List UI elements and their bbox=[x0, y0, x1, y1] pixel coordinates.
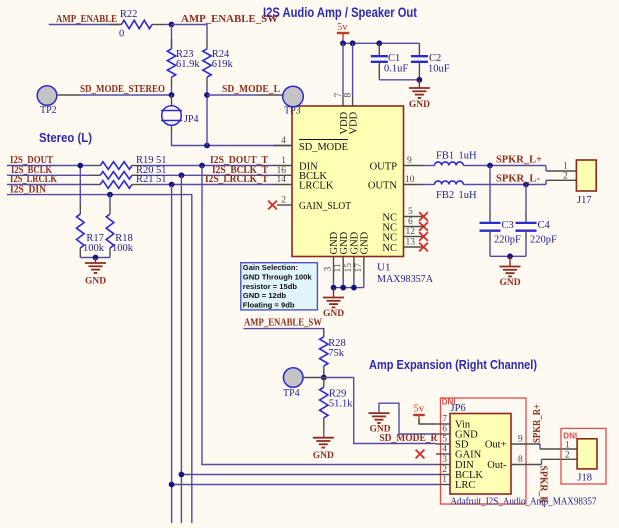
junction SD_MODE_L at R24 bbox=[204, 92, 210, 98]
svg-text:resistor = 15db: resistor = 15db bbox=[243, 282, 298, 291]
svg-text:GND: GND bbox=[313, 451, 334, 461]
svg-text:4: 4 bbox=[442, 445, 447, 455]
resistor R22 bbox=[110, 24, 121, 26]
svg-text:1: 1 bbox=[563, 162, 568, 172]
svg-text:51.1k: 51.1k bbox=[329, 399, 353, 410]
svg-text:AMP_ENABLE_SW: AMP_ENABLE_SW bbox=[244, 317, 322, 329]
svg-text:220pF: 220pF bbox=[494, 235, 521, 246]
svg-text:9: 9 bbox=[518, 435, 523, 445]
svg-text:C2: C2 bbox=[429, 53, 441, 64]
connector J17 bbox=[576, 160, 596, 191]
resistor R20 bbox=[91, 174, 101, 176]
resistor R29 bbox=[323, 378, 325, 388]
ferrite bead FB1 bbox=[423, 165, 435, 167]
svg-text:J17: J17 bbox=[577, 195, 592, 206]
pin 8 Out- JP6 bbox=[511, 464, 542, 466]
ground GND below R29 bbox=[313, 437, 334, 439]
pin 2 BCLK JP6 bbox=[436, 474, 450, 476]
wire TP4 node to SD_MODE_R bbox=[324, 378, 436, 444]
svg-text:6: 6 bbox=[442, 425, 447, 435]
svg-text:Out-: Out- bbox=[487, 460, 507, 471]
ground GND at JP6 bbox=[369, 412, 390, 414]
svg-text:MAX98357A: MAX98357A bbox=[377, 273, 433, 285]
svg-text:75k: 75k bbox=[328, 348, 345, 359]
wire R17 R18 to GND bbox=[80, 257, 110, 259]
svg-text:FB2: FB2 bbox=[436, 190, 454, 201]
wire SD_MODE_L to TP3 bbox=[207, 94, 257, 96]
svg-text:100k: 100k bbox=[83, 243, 105, 254]
svg-text:AMP_ENABLE_SW: AMP_ENABLE_SW bbox=[181, 13, 278, 25]
wire AMP_ENABLE_SW to R24 column bbox=[172, 25, 208, 39]
svg-text:3: 3 bbox=[324, 267, 334, 272]
resistor R24 bbox=[206, 39, 208, 49]
capacitor C2 bbox=[418, 43, 420, 56]
wire jog Out- to J18 pin 2 bbox=[541, 459, 543, 464]
svg-text:GND: GND bbox=[323, 309, 344, 319]
wire 5v rail horizontal bbox=[343, 42, 419, 44]
svg-text:17: 17 bbox=[354, 263, 364, 273]
svg-text:GND: GND bbox=[85, 277, 106, 287]
wire AMP_ENABLE bbox=[49, 24, 122, 26]
svg-text:14: 14 bbox=[277, 175, 287, 185]
svg-text:JP4: JP4 bbox=[184, 114, 198, 125]
svg-text:R22: R22 bbox=[120, 9, 138, 20]
svg-text:GND Through 100k: GND Through 100k bbox=[243, 272, 313, 281]
svg-text:5: 5 bbox=[408, 207, 413, 217]
svg-text:11: 11 bbox=[333, 263, 343, 272]
wire VDD pin8 bbox=[352, 43, 354, 96]
wire SD_MODE_L vertical bbox=[206, 95, 208, 146]
junction I2S_DOUT_T column bbox=[199, 163, 205, 169]
wire I2S_LRCLK_T bbox=[142, 184, 274, 186]
wire I2S_DOUT_T bbox=[142, 165, 274, 167]
pin 3 DIN JP6 bbox=[436, 464, 450, 466]
svg-text:619k: 619k bbox=[212, 59, 234, 70]
junction R17 at I2S_DOUT bbox=[77, 163, 83, 169]
pin 9 OUTP bbox=[404, 165, 424, 167]
svg-text:GND: GND bbox=[339, 231, 350, 254]
wire LRC to JP6 pin 1 bbox=[172, 484, 436, 486]
junction TP4 node bbox=[321, 375, 327, 381]
svg-text:TP4: TP4 bbox=[283, 388, 300, 399]
svg-text:Floating = 9db: Floating = 9db bbox=[243, 301, 295, 310]
capacitor C3 bbox=[489, 166, 491, 214]
svg-text:2: 2 bbox=[442, 465, 447, 475]
svg-text:1: 1 bbox=[565, 441, 570, 451]
pin 1 LRC JP6 bbox=[436, 484, 450, 486]
svg-text:C3: C3 bbox=[502, 220, 514, 231]
svg-text:R21: R21 bbox=[136, 174, 154, 185]
svg-text:5v: 5v bbox=[414, 404, 425, 415]
svg-text:5: 5 bbox=[442, 435, 447, 445]
pin 5 NC bbox=[404, 216, 424, 218]
svg-text:Out+: Out+ bbox=[485, 440, 507, 451]
svg-text:2: 2 bbox=[281, 196, 286, 206]
solder jumper JP4 bbox=[171, 95, 173, 106]
connector J18 body bbox=[577, 439, 597, 469]
svg-text:100k: 100k bbox=[112, 243, 134, 254]
wire C1 C2 bottom bbox=[379, 79, 419, 81]
svg-text:SD_MODE_L: SD_MODE_L bbox=[222, 83, 280, 95]
ground GND below C2 bbox=[418, 80, 420, 88]
junction C3 at SPKR_L+ bbox=[487, 163, 493, 169]
wire jog to J17 pin 2 bbox=[545, 180, 547, 184]
svg-text:1: 1 bbox=[442, 475, 447, 485]
pin 11 GND bbox=[342, 257, 344, 278]
svg-text:2: 2 bbox=[565, 451, 570, 461]
capacitor C4 bbox=[525, 185, 527, 214]
svg-text:U1: U1 bbox=[377, 262, 390, 274]
wire C3 C4 to GND bbox=[490, 255, 526, 257]
pin 12 NC bbox=[404, 236, 424, 238]
pin 17 GND bbox=[363, 257, 365, 278]
svg-text:1uH: 1uH bbox=[459, 151, 478, 162]
resistor R17 bbox=[79, 166, 81, 205]
pin 13 NC bbox=[404, 246, 424, 248]
resistor R23 bbox=[171, 25, 173, 49]
wire TP2 pin bbox=[57, 94, 80, 96]
svg-text:OUTN: OUTN bbox=[368, 181, 398, 192]
wire BCLK to JP6 pin 2 bbox=[181, 474, 436, 476]
test point TP3 pin bbox=[257, 94, 283, 96]
svg-text:0.1uF: 0.1uF bbox=[384, 64, 408, 75]
svg-text:NC: NC bbox=[382, 233, 397, 244]
svg-text:SPKR_R-: SPKR_R- bbox=[538, 466, 550, 507]
pin 1 DIN bbox=[273, 165, 292, 167]
wire I2S_BCLK bbox=[7, 174, 91, 176]
wire I2S_DOUT bbox=[7, 165, 91, 167]
svg-text:VDD: VDD bbox=[348, 111, 359, 134]
wire R22 to node AMP_ENABLE_SW bbox=[164, 24, 172, 26]
pin 16 BCLK bbox=[273, 174, 292, 176]
test point TP4 bbox=[283, 368, 303, 388]
pin 15 GND bbox=[353, 257, 355, 278]
svg-text:GND: GND bbox=[499, 278, 520, 288]
wire jog to J17 pin 1 bbox=[545, 166, 547, 172]
svg-text:C4: C4 bbox=[538, 220, 551, 231]
wire I2S_BCLK_T bbox=[142, 174, 274, 176]
svg-text:GND = 12db: GND = 12db bbox=[243, 291, 287, 300]
svg-text:10: 10 bbox=[405, 175, 415, 185]
svg-text:SD_MODE_STEREO: SD_MODE_STEREO bbox=[80, 83, 165, 95]
connector JP6 body bbox=[450, 414, 511, 495]
pin 5 SD JP6 bbox=[436, 443, 450, 445]
wire R29 to GND bbox=[323, 428, 325, 438]
wire I2S_DOUT_T vertical to DIN bbox=[202, 166, 436, 465]
pin 7 Vin JP6 bbox=[436, 423, 450, 425]
no-connect X on JP6 GAIN bbox=[416, 450, 425, 459]
svg-text:1uH: 1uH bbox=[459, 190, 478, 201]
pin 2 GAIN_SLOT bbox=[277, 204, 292, 206]
connector JP6 DNI box bbox=[441, 398, 527, 504]
wire I2S_DIN bbox=[7, 195, 192, 523]
svg-text:TP2: TP2 bbox=[40, 105, 57, 116]
resistor R19 bbox=[91, 165, 101, 167]
resistor R21 bbox=[91, 184, 101, 186]
svg-text:FB1: FB1 bbox=[436, 151, 454, 162]
svg-text:220pF: 220pF bbox=[530, 235, 557, 246]
junction C1 column bbox=[376, 40, 382, 46]
svg-text:8: 8 bbox=[343, 93, 353, 98]
pin 3 GND bbox=[333, 257, 335, 278]
junction I2S_DIN at R18 bbox=[107, 192, 113, 198]
svg-text:1: 1 bbox=[281, 156, 286, 166]
svg-text:61.9k: 61.9k bbox=[176, 59, 200, 70]
svg-text:13: 13 bbox=[406, 238, 416, 248]
svg-text:I2S_LRCLK_T: I2S_LRCLK_T bbox=[205, 174, 268, 185]
resistor R18 bbox=[109, 195, 111, 205]
svg-text:GND: GND bbox=[409, 100, 430, 110]
svg-text:C1: C1 bbox=[388, 53, 400, 64]
svg-text:8: 8 bbox=[518, 455, 523, 465]
wire SD_MODE_STEREO bbox=[80, 94, 172, 96]
svg-text:Amp Expansion (Right Channel): Amp Expansion (Right Channel) bbox=[369, 357, 537, 372]
svg-text:SPKR_R+: SPKR_R+ bbox=[531, 404, 543, 443]
ground GND below C3 C4 bbox=[509, 256, 511, 266]
test point TP2 bbox=[37, 86, 57, 106]
svg-text:15: 15 bbox=[344, 263, 354, 273]
svg-text:GND: GND bbox=[369, 425, 390, 435]
svg-text:OUTP: OUTP bbox=[370, 162, 398, 173]
svg-text:GND: GND bbox=[360, 231, 371, 254]
svg-text:GAIN: GAIN bbox=[455, 450, 482, 461]
svg-text:7: 7 bbox=[334, 93, 344, 98]
wire R24 to SD_MODE_L node bbox=[206, 87, 208, 96]
svg-text:Stereo (L): Stereo (L) bbox=[39, 131, 92, 145]
svg-text:AMP_ENABLE: AMP_ENABLE bbox=[56, 13, 117, 25]
pin 4 SD_MODE bbox=[273, 145, 292, 147]
wire AMP_ENABLE_SW lower bbox=[244, 329, 324, 337]
pin 4 GAIN JP6 bbox=[436, 453, 450, 455]
svg-text:TP3: TP3 bbox=[284, 106, 301, 117]
wire I2S_BCLK_T vertical to BCLK bbox=[180, 175, 182, 523]
op-amp U1 MAX98357A body bbox=[292, 106, 404, 257]
svg-text:LRCLK: LRCLK bbox=[299, 181, 334, 192]
junction VDD pin8 bbox=[350, 40, 356, 46]
pin 10 OUTN bbox=[404, 184, 424, 186]
wire I2S_LRCLK_T vertical to LRC bbox=[171, 185, 173, 524]
pin 9 Out+ JP6 bbox=[511, 443, 540, 445]
wire jog Out+ to J18 pin 1 bbox=[539, 444, 541, 449]
junction I2S_BCLK_T column bbox=[179, 172, 185, 178]
svg-text:4: 4 bbox=[281, 136, 286, 146]
svg-text:7: 7 bbox=[442, 415, 447, 425]
svg-text:5v: 5v bbox=[337, 22, 348, 33]
svg-text:6: 6 bbox=[408, 217, 413, 227]
wire U1 GND rail bbox=[333, 278, 335, 288]
ferrite bead FB2 bbox=[423, 184, 435, 186]
svg-text:I2S Audio Amp / Speaker Out: I2S Audio Amp / Speaker Out bbox=[263, 5, 417, 20]
junction C2 GND bbox=[417, 77, 423, 83]
svg-text:J18: J18 bbox=[577, 473, 592, 484]
note box Gain Selection bbox=[241, 263, 318, 310]
wire I2S_LRCLK bbox=[7, 184, 91, 186]
svg-text:Gain Selection:: Gain Selection: bbox=[243, 263, 298, 272]
pin 6 NC bbox=[404, 226, 424, 228]
svg-text:SPKR_L-: SPKR_L- bbox=[496, 173, 540, 185]
wire JP4 to SD_MODE_L net bbox=[171, 125, 173, 133]
junction SD_MODE_STEREO at R23 bbox=[169, 92, 175, 98]
svg-text:SD_MODE: SD_MODE bbox=[299, 142, 348, 153]
connector J18 DNI box bbox=[561, 428, 606, 484]
ground GND below U1 bbox=[333, 288, 335, 298]
svg-text:GAIN_SLOT: GAIN_SLOT bbox=[299, 201, 352, 212]
wire SPKR_L+ bbox=[463, 165, 546, 167]
ground GND below R17 R18 bbox=[95, 258, 97, 264]
svg-text:9: 9 bbox=[407, 156, 412, 166]
junction VDD pin7 bbox=[340, 40, 346, 46]
junction I2S_LRCLK_T column bbox=[169, 182, 175, 188]
pin 14 LRCLK bbox=[273, 184, 292, 186]
wire R23 to SD_MODE_STEREO node bbox=[171, 87, 173, 96]
svg-text:10uF: 10uF bbox=[428, 64, 450, 75]
svg-text:SPKR_L+: SPKR_L+ bbox=[496, 154, 542, 166]
svg-text:Adafruit_I2S_Audio_Amp_MAX9835: Adafruit_I2S_Audio_Amp_MAX98357 bbox=[451, 497, 597, 508]
wire 5v to JP6 pin 7 bbox=[419, 419, 436, 424]
wire SPKR_L- bbox=[463, 184, 546, 186]
resistor R28 bbox=[323, 329, 325, 337]
wire VDD pin7 bbox=[342, 43, 344, 96]
svg-text:DNI: DNI bbox=[563, 432, 577, 441]
wire GND to JP6 pin 6 bbox=[379, 403, 436, 434]
svg-text:12: 12 bbox=[406, 227, 416, 237]
capacitor C1 bbox=[378, 43, 380, 56]
svg-text:NC: NC bbox=[382, 243, 397, 254]
junction SD_MODE_L column bbox=[204, 143, 210, 149]
junction C4 at SPKR_L- bbox=[523, 182, 529, 188]
svg-text:0: 0 bbox=[119, 29, 124, 40]
svg-text:JP6: JP6 bbox=[451, 403, 466, 414]
svg-text:51: 51 bbox=[156, 174, 167, 185]
svg-text:2: 2 bbox=[563, 172, 568, 182]
svg-text:3: 3 bbox=[442, 455, 447, 465]
pin 6 GND JP6 bbox=[436, 433, 450, 435]
svg-text:LRC: LRC bbox=[455, 480, 475, 491]
test point TP3 bbox=[283, 86, 304, 107]
node AMP_ENABLE_SW junction bbox=[169, 22, 175, 28]
